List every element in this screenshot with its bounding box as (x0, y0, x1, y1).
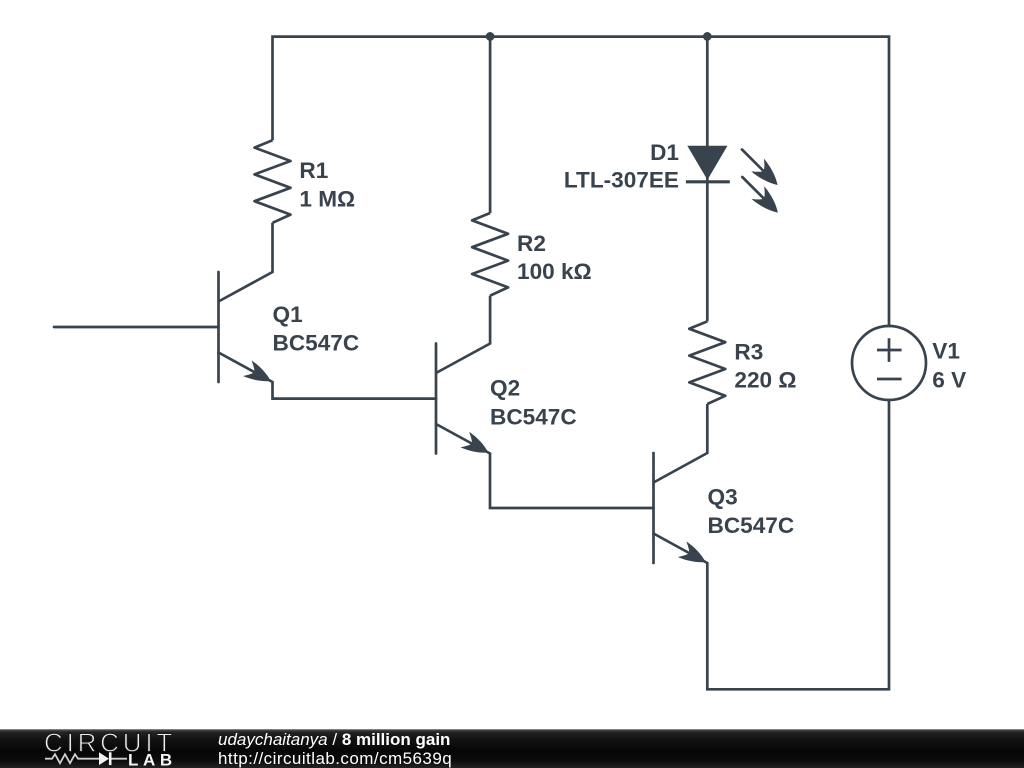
svg-text:Q2: Q2 (490, 375, 520, 400)
svg-text:6 V: 6 V (932, 367, 966, 392)
wire: top-rail junction down through LED D1 to R3 top lead (706, 37, 709, 322)
logo wire after diode (111, 758, 128, 760)
svg-text:BC547C: BC547C (708, 513, 795, 538)
LED light arrow 1 head (751, 159, 784, 192)
node junction at D1 column on top rail (703, 32, 712, 41)
logo diode triangle (99, 752, 109, 765)
resistor R2 zigzag (472, 213, 508, 296)
svg-text:1 MΩ: 1 MΩ (299, 187, 355, 212)
CircuitLab logo (0, 729, 200, 768)
logo resistor squiggle wire (45, 754, 99, 763)
resistor R1 zigzag (255, 140, 291, 223)
svg-text:R1: R1 (299, 158, 328, 183)
svg-text:100 kΩ: 100 kΩ (517, 259, 592, 284)
LED light arrow 2 shaft (742, 177, 764, 199)
svg-text:Q3: Q3 (708, 484, 738, 509)
V1 minus sign (877, 378, 902, 381)
voltage source V1 body circle (852, 326, 926, 400)
node junction at R2 column on top rail (486, 32, 495, 41)
LED light arrow 1 shaft (742, 150, 764, 172)
wire: R3 bottom lead to Q3 collector (654, 404, 708, 483)
svg-text:BC547C: BC547C (273, 331, 360, 356)
svg-text:BC547C: BC547C (490, 404, 577, 429)
svg-text:LTL-307EE: LTL-307EE (564, 168, 679, 193)
Q2 emitter arrowhead (460, 432, 492, 461)
transistor Q2 base bar (435, 344, 438, 454)
svg-text:R3: R3 (734, 340, 763, 365)
svg-text:D1: D1 (650, 140, 679, 165)
wire: Q1 emitter down and over to Q2 base (219, 353, 437, 399)
svg-text:V1: V1 (932, 338, 960, 363)
V1 plus sign (877, 338, 902, 362)
credit line: author / title (218, 731, 450, 749)
Q3 emitter arrowhead (678, 541, 710, 569)
footer brand bar (0, 729, 1024, 768)
wire: R1 bottom lead to Q1 collector (219, 223, 273, 302)
transistor Q3 base bar (652, 453, 655, 563)
wire: Q2 emitter down and over to Q3 base (436, 424, 654, 508)
LED D1 triangle (anode) (687, 146, 727, 180)
LED light arrow 2 head (752, 186, 785, 219)
svg-text:LAB: LAB (128, 751, 177, 768)
Q1 emitter arrowhead (243, 360, 275, 388)
credit line: url (218, 750, 452, 768)
wire: top supply rail with drop to R1 (left) and drop to V1 (right) (273, 37, 890, 326)
svg-text:R2: R2 (517, 231, 546, 256)
wire: top-rail junction down to R2 top lead (489, 37, 492, 213)
transistor Q1 base bar (217, 272, 220, 382)
svg-text:Q1: Q1 (273, 302, 303, 327)
logo diode cathode bar (109, 752, 112, 765)
svg-text:220 Ω: 220 Ω (734, 368, 796, 393)
wire: R2 bottom lead to Q2 collector (436, 296, 490, 373)
LED D1 cathode bar (686, 180, 730, 183)
wire: circuit input to Q1 base (54, 326, 219, 329)
resistor R3 zigzag (689, 321, 725, 404)
wire: Q3 emitter down, along bottom rail and up to V1 minus terminal (654, 400, 890, 689)
